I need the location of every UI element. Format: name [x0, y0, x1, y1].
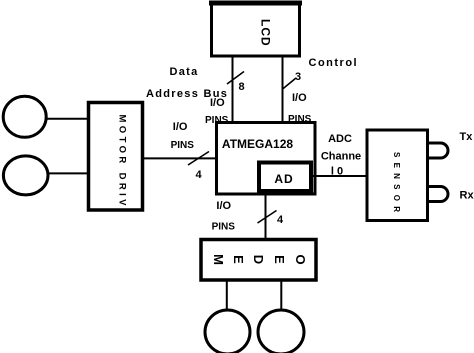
wheel circle left — [205, 310, 250, 353]
wheels box — [201, 240, 316, 281]
motor circle bottom left M2 — [3, 156, 48, 195]
svg-text:E: E — [231, 255, 246, 264]
wire AD to sensor — [313, 175, 366, 177]
svg-text:Channe: Channe — [321, 151, 361, 163]
wire wheels box to wheel right — [280, 281, 282, 309]
svg-text:3: 3 — [295, 71, 301, 83]
bus width slash 8 — [227, 72, 244, 85]
svg-text:I/O: I/O — [210, 97, 225, 109]
bus width slash 4 left — [188, 152, 209, 166]
wire wheels box to wheel left — [226, 281, 228, 309]
sensor transducer Tx — [429, 143, 448, 158]
svg-text:PINS: PINS — [212, 222, 236, 233]
sensor box — [367, 130, 428, 221]
svg-text:ATMEGA128: ATMEGA128 — [222, 137, 293, 151]
svg-text:Rx: Rx — [460, 190, 474, 202]
wire ATMEGA to wheels box — [265, 194, 267, 238]
svg-text:M: M — [211, 254, 226, 265]
ADC box AD — [259, 163, 311, 192]
svg-text:D: D — [251, 255, 266, 264]
bus width slash 4 bottom — [258, 211, 277, 224]
wire motor1 to driver — [47, 118, 89, 120]
svg-text:I/O: I/O — [292, 92, 307, 104]
svg-text:4: 4 — [196, 169, 203, 181]
motor driver box — [89, 103, 143, 211]
svg-text:l 0: l 0 — [331, 166, 343, 178]
svg-text:8: 8 — [238, 81, 244, 93]
bus width slash 3 — [282, 78, 296, 90]
svg-text:ADC: ADC — [328, 133, 352, 145]
svg-text:E: E — [272, 255, 287, 264]
svg-text:I/O: I/O — [173, 121, 188, 133]
svg-text:Data: Data — [170, 66, 199, 78]
sensor transducer Rx — [429, 187, 448, 202]
wire driver to ATMEGA — [143, 157, 217, 159]
svg-text:MOTOR DRIV: MOTOR DRIV — [117, 115, 128, 207]
svg-text:Tx: Tx — [460, 131, 474, 143]
svg-text:LCD: LCD — [259, 19, 273, 47]
svg-text:4: 4 — [277, 214, 284, 226]
svg-text:PINS: PINS — [171, 140, 195, 151]
svg-text:AD: AD — [274, 172, 293, 186]
wire data bus LCD to ATMEGA — [232, 56, 234, 121]
svg-text:O: O — [293, 254, 308, 264]
svg-text:I/O: I/O — [216, 200, 231, 212]
motor circle top left M1 — [3, 96, 46, 137]
wire control LCD to ATMEGA — [282, 56, 284, 121]
svg-text:Control: Control — [309, 57, 359, 69]
wire motor2 to driver — [49, 172, 89, 174]
microcontroller box ATMEGA128 — [217, 123, 316, 195]
wheel circle right — [258, 310, 304, 353]
LCD display box U3 — [209, 3, 302, 56]
